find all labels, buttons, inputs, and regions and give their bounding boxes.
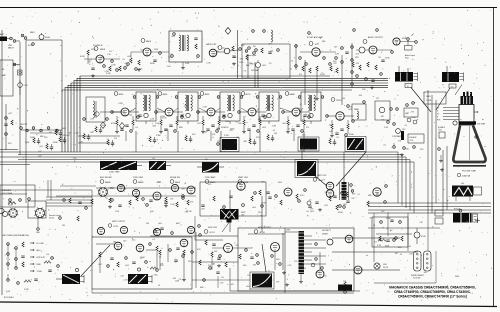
terminal flyback tap bbox=[315, 239, 333, 269]
svg-text:HTR 6.3V: HTR 6.3V bbox=[37, 257, 46, 259]
CRT funnel and screen bbox=[453, 126, 486, 166]
svg-text:1B3GT: 1B3GT bbox=[322, 234, 329, 236]
wire left vertical x20 bbox=[19, 42, 21, 155]
svg-text:560: 560 bbox=[381, 211, 384, 213]
svg-text:YOKE: YOKE bbox=[426, 100, 432, 102]
svg-text:VERT OSC: VERT OSC bbox=[317, 175, 327, 177]
svg-text:560: 560 bbox=[113, 241, 116, 243]
wire trunk x230b bbox=[301, 140, 303, 159]
svg-text:MAGNAVOX CHASSIS CR6A/CT648F00: MAGNAVOX CHASSIS CR6A/CT648F00, CR6A/CT6… bbox=[389, 286, 475, 290]
tube V14 AGC keyer spoked bbox=[98, 187, 109, 198]
capacitor C90 filter can bbox=[414, 228, 426, 244]
svg-text:PILOT: PILOT bbox=[383, 267, 389, 269]
node cluster M1 bbox=[59, 135, 71, 144]
svg-text:AGC: AGC bbox=[37, 249, 42, 252]
sync right extra parts bbox=[252, 189, 348, 209]
svg-text:VERT OSC: VERT OSC bbox=[238, 177, 249, 179]
svg-text:.001: .001 bbox=[295, 116, 299, 118]
svg-text:120K: 120K bbox=[111, 64, 116, 66]
video IF stage 3 parts bbox=[197, 111, 227, 134]
remote socket wires bbox=[0, 180, 92, 234]
tube V7 video IF 1 4BZ6 bbox=[114, 92, 129, 116]
audio output parts bbox=[351, 43, 416, 91]
tube V21 vert output bbox=[373, 185, 388, 197]
svg-text:470K: 470K bbox=[156, 182, 161, 184]
svg-text:560: 560 bbox=[402, 129, 405, 131]
coil L11 trap black bbox=[149, 158, 171, 170]
tube V2 sound IF amp 6AU6 bbox=[141, 39, 152, 57]
svg-text:FOCUS: FOCUS bbox=[454, 209, 461, 211]
svg-text:.01: .01 bbox=[357, 194, 360, 196]
mixer terminal row bbox=[20, 124, 62, 139]
svg-text:330K: 330K bbox=[455, 276, 460, 278]
svg-text:.005: .005 bbox=[230, 284, 234, 286]
svg-text:.02: .02 bbox=[408, 246, 411, 248]
transformer Z4 video IF can 4 bbox=[256, 92, 282, 124]
coil L1 input IF can bbox=[83, 97, 109, 122]
svg-text:G2: G2 bbox=[437, 107, 439, 109]
tube V22b vert out right bbox=[136, 243, 151, 252]
svg-text:470K: 470K bbox=[421, 236, 426, 238]
tube V15b clipper bbox=[132, 189, 139, 196]
svg-text:.001: .001 bbox=[376, 193, 380, 195]
svg-text:.01: .01 bbox=[373, 225, 376, 227]
VHF tuner RF unit box bbox=[0, 60, 13, 96]
svg-text:6AU8: 6AU8 bbox=[175, 181, 181, 184]
svg-text:.047: .047 bbox=[38, 155, 42, 157]
wire flyback out 1 bbox=[332, 237, 400, 239]
sound IF stage parts bbox=[80, 50, 126, 78]
video IF stage 4 parts bbox=[238, 111, 267, 134]
AGC det parts cluster bbox=[299, 52, 339, 101]
svg-text:1.5K: 1.5K bbox=[115, 211, 120, 213]
svg-text:1M: 1M bbox=[146, 223, 149, 225]
svg-text:1M: 1M bbox=[234, 142, 237, 144]
svg-text:.001: .001 bbox=[236, 137, 240, 139]
tube socket C spoked bbox=[34, 207, 46, 219]
node cluster M9 bbox=[33, 136, 45, 145]
transformer Z1 video IF can 1 bbox=[133, 92, 159, 124]
svg-text:.02: .02 bbox=[222, 47, 225, 49]
wire left vertical x26 bbox=[25, 40, 27, 203]
terminal pair right bbox=[384, 121, 395, 129]
wire yoke box to flyback bbox=[192, 262, 250, 280]
svg-text:2.2M: 2.2M bbox=[74, 133, 79, 135]
svg-text:COIL: COIL bbox=[410, 140, 414, 142]
tube V9 video IF 3 4BZ6 bbox=[200, 92, 215, 116]
svg-text:HV RECT: HV RECT bbox=[322, 230, 332, 232]
transformer T5 47.25 trap black bbox=[298, 135, 319, 152]
svg-text:SOUND IF: SOUND IF bbox=[93, 45, 103, 47]
svg-text:6DQ6: 6DQ6 bbox=[260, 232, 266, 234]
svg-text:B PLUS ADJ: B PLUS ADJ bbox=[4, 296, 14, 299]
equalizing coil label bbox=[438, 126, 445, 172]
svg-text:SYNC SEP: SYNC SEP bbox=[133, 177, 144, 179]
capacitor C601 bbox=[18, 70, 23, 75]
node cluster M12 bbox=[107, 138, 117, 147]
svg-text:120K: 120K bbox=[320, 74, 325, 76]
svg-text:1M: 1M bbox=[88, 61, 91, 63]
svg-text:4.5MC TRAP: 4.5MC TRAP bbox=[109, 171, 120, 174]
svg-text:.001: .001 bbox=[359, 95, 363, 97]
volume control bbox=[251, 60, 261, 72]
svg-text:120K: 120K bbox=[175, 280, 180, 282]
svg-text:HOR OSC: HOR OSC bbox=[208, 227, 218, 229]
svg-text:560: 560 bbox=[154, 275, 157, 277]
tube V24 horiz output bbox=[271, 243, 280, 252]
video IF stage 2 parts bbox=[155, 111, 184, 134]
svg-text:.005: .005 bbox=[204, 131, 208, 133]
brightness box bbox=[404, 102, 418, 124]
tube VD5 horiz afc bbox=[152, 239, 193, 282]
tube VD2 bbox=[120, 226, 127, 233]
transformer T8 vert output black bbox=[220, 204, 245, 232]
between yoke parts bbox=[154, 223, 174, 234]
tube V27 damper b bbox=[354, 266, 362, 274]
power filter parts bbox=[376, 234, 412, 249]
svg-text:220: 220 bbox=[73, 158, 76, 160]
wire osc feed bbox=[195, 216, 223, 240]
ratio det load parts bbox=[217, 30, 255, 78]
svg-text:ION TRAP: ION TRAP bbox=[477, 123, 486, 126]
svg-text:.047: .047 bbox=[108, 188, 112, 190]
svg-text:330K: 330K bbox=[221, 209, 226, 211]
svg-text:470K: 470K bbox=[111, 123, 116, 125]
svg-text:1M: 1M bbox=[214, 251, 217, 253]
svg-text:6DG6: 6DG6 bbox=[402, 38, 407, 40]
tube V1 sound IF 4BU8 bbox=[93, 45, 106, 63]
svg-text:560: 560 bbox=[342, 98, 345, 100]
tube socket B spoked bbox=[8, 202, 19, 218]
wire left vertical x62 bbox=[61, 40, 63, 92]
phono 6T8 extra terms bbox=[295, 32, 349, 70]
svg-text:1M: 1M bbox=[274, 133, 277, 135]
tube V18 vert osc bbox=[237, 182, 245, 190]
border top rule bbox=[0, 7, 497, 9]
resistor R90 boost bbox=[344, 282, 347, 293]
svg-text:330K: 330K bbox=[385, 246, 390, 248]
svg-text:120K: 120K bbox=[239, 62, 244, 64]
svg-text:560: 560 bbox=[111, 188, 114, 190]
svg-text:1M: 1M bbox=[62, 225, 65, 227]
wire diagonal T7 to vert osc bbox=[303, 166, 327, 186]
svg-text:1.5K: 1.5K bbox=[384, 127, 389, 129]
diamond test point TP3 bbox=[100, 122, 105, 128]
wire diagonal T6 to vert osc bbox=[336, 152, 366, 186]
svg-text:T3: T3 bbox=[451, 86, 453, 88]
tube VD1 bbox=[97, 227, 104, 234]
antenna input terminals bbox=[0, 32, 50, 42]
flyback cage box bbox=[238, 228, 354, 291]
svg-text:.02: .02 bbox=[140, 258, 143, 260]
svg-text:330K: 330K bbox=[349, 134, 354, 136]
antenna extra text bbox=[8, 43, 34, 50]
tube V23 horiz osc bbox=[224, 244, 233, 253]
tube V20 vert osc twin 6CG7 bbox=[313, 175, 334, 197]
node cluster M10 bbox=[46, 142, 59, 151]
label VERT OSC bbox=[238, 177, 249, 184]
sync row parts clutter bbox=[91, 196, 387, 214]
row4 under-tube parts bbox=[96, 188, 196, 209]
svg-text:2.2M: 2.2M bbox=[335, 54, 340, 56]
svg-text:2.2M: 2.2M bbox=[306, 148, 311, 150]
svg-text:.01: .01 bbox=[289, 68, 292, 70]
svg-text:B+ 140V: B+ 140V bbox=[37, 243, 45, 245]
focus coil black W bbox=[452, 183, 482, 201]
wire T3 right lead bbox=[455, 85, 462, 96]
coil L10 trap black bbox=[100, 161, 142, 174]
svg-text:5%: 5% bbox=[235, 121, 238, 123]
tube V8 video IF 2 4BZ6 bbox=[158, 92, 173, 116]
svg-text:5%: 5% bbox=[168, 57, 171, 59]
horiz osc parts bbox=[208, 248, 259, 270]
svg-text:5%: 5% bbox=[269, 63, 272, 65]
wire IF stage drops to bus bbox=[126, 131, 304, 152]
wire power verticals bbox=[374, 213, 428, 262]
transformer T2 audio output black bbox=[395, 66, 418, 88]
yoke box parts bbox=[96, 244, 184, 269]
node cluster M4 bbox=[149, 135, 161, 144]
svg-text:PICTURE TUBE: PICTURE TUBE bbox=[462, 171, 477, 173]
svg-text:5%: 5% bbox=[105, 198, 108, 200]
tube V16 noise inverter bbox=[153, 192, 161, 200]
svg-text:5%: 5% bbox=[109, 51, 112, 53]
svg-text:470K: 470K bbox=[162, 118, 167, 120]
tube V11 video IF 5 6AN8 bbox=[285, 92, 300, 116]
tube V6 audio output bbox=[353, 29, 418, 45]
wire diagonal T3 to CRT bus bbox=[436, 88, 450, 110]
coil L14 horiz yoke black bbox=[128, 268, 152, 284]
svg-text:DEFL: DEFL bbox=[426, 96, 431, 98]
contrast control bbox=[392, 129, 401, 138]
svg-text:.047: .047 bbox=[257, 119, 261, 121]
wire trunk x92 bbox=[91, 190, 93, 237]
tube V3 ratio detector bbox=[206, 43, 222, 57]
svg-text:.047: .047 bbox=[355, 53, 359, 55]
AC interlock small parts bbox=[372, 217, 408, 247]
tube V25 HV rectifier bbox=[345, 235, 353, 243]
svg-text:5%: 5% bbox=[244, 70, 247, 72]
svg-text:220: 220 bbox=[333, 63, 336, 65]
transformer T9 flyback HV hatched bbox=[285, 228, 326, 293]
speaker plug SP1 bbox=[405, 34, 414, 51]
svg-text:.005: .005 bbox=[246, 286, 250, 288]
svg-text:220: 220 bbox=[49, 132, 52, 134]
label PICTURE TUBE bbox=[457, 171, 476, 178]
svg-text:6CZ5: 6CZ5 bbox=[114, 226, 119, 228]
transformer Z2 video IF can 2 bbox=[175, 92, 201, 124]
svg-text:.01: .01 bbox=[299, 104, 302, 106]
svg-text:.01: .01 bbox=[404, 125, 407, 127]
wire power horizontals bbox=[368, 228, 440, 283]
transformer T1 quadrature det bbox=[169, 31, 202, 70]
svg-text:5%: 5% bbox=[299, 74, 302, 76]
svg-text:T2: T2 bbox=[407, 86, 409, 88]
tube VD3 bbox=[153, 228, 160, 235]
svg-text:.01: .01 bbox=[158, 285, 161, 287]
transformer T6 41.25 trap black bbox=[345, 134, 366, 152]
CRT socket cap black bbox=[461, 96, 474, 105]
wire right power bus band 3 bbox=[368, 203, 491, 213]
svg-text:1M: 1M bbox=[126, 65, 129, 67]
wire IF row horizontal bbox=[100, 108, 303, 112]
svg-text:.047: .047 bbox=[132, 240, 136, 242]
svg-text:220: 220 bbox=[88, 59, 91, 61]
svg-text:560: 560 bbox=[233, 57, 236, 59]
svg-text:2.2M: 2.2M bbox=[206, 63, 211, 65]
svg-text:5%: 5% bbox=[205, 159, 208, 161]
transformer T4 sound take-off black bbox=[217, 135, 239, 152]
wire diagonal T2 to CRT bus bbox=[411, 88, 431, 113]
label HOR OSC bbox=[204, 227, 218, 234]
focus magnet pair black bbox=[453, 209, 480, 224]
left edge column parts bbox=[4, 104, 13, 150]
svg-text:330K: 330K bbox=[164, 130, 169, 132]
transformer T3 width coil black bbox=[442, 66, 464, 88]
svg-text:2.2M: 2.2M bbox=[25, 142, 30, 144]
svg-text:120K: 120K bbox=[135, 196, 140, 198]
border right rule bbox=[493, 8, 495, 307]
svg-text:4BU8: 4BU8 bbox=[100, 49, 106, 51]
svg-text:560: 560 bbox=[123, 240, 126, 242]
svg-text:COIL: COIL bbox=[438, 130, 442, 132]
label interconnect plug bbox=[411, 275, 424, 280]
svg-text:TEST PT: TEST PT bbox=[20, 124, 28, 126]
coil L16 small black bbox=[338, 285, 352, 291]
diamond test point TP2 bbox=[119, 123, 124, 129]
transformer Z3 video IF can 3 bbox=[217, 92, 243, 124]
peaking coil box bbox=[347, 101, 366, 120]
svg-text:M601: M601 bbox=[30, 32, 35, 34]
svg-text:6CG7: 6CG7 bbox=[210, 232, 216, 234]
connector J2 interconnect bbox=[424, 251, 432, 271]
svg-text:.02: .02 bbox=[399, 254, 402, 256]
svg-text:.047: .047 bbox=[212, 56, 216, 58]
svg-text:330K: 330K bbox=[91, 49, 96, 51]
mid bottom parts cluster bbox=[196, 232, 227, 289]
label NOISE INV bbox=[170, 177, 181, 184]
svg-text:1M: 1M bbox=[214, 53, 217, 55]
wire horiz section verticals bbox=[230, 190, 320, 270]
svg-text:470K: 470K bbox=[278, 182, 283, 184]
CRT aux parts bbox=[435, 148, 443, 224]
svg-text:560: 560 bbox=[129, 115, 132, 117]
svg-text:4.7K: 4.7K bbox=[377, 245, 382, 247]
svg-text:.02: .02 bbox=[287, 129, 290, 131]
border bottom rule bbox=[0, 302, 497, 307]
svg-text:.001: .001 bbox=[369, 218, 373, 220]
svg-text:120K: 120K bbox=[225, 121, 230, 123]
svg-text:220: 220 bbox=[324, 275, 327, 277]
wire sync row rails bbox=[30, 186, 196, 196]
svg-text:PLUG: PLUG bbox=[8, 205, 13, 207]
svg-text:220: 220 bbox=[409, 253, 412, 255]
deflection yoke label box bbox=[424, 92, 446, 104]
wire trunk x344 bbox=[343, 152, 345, 200]
svg-text:6AU6: 6AU6 bbox=[146, 40, 152, 43]
svg-text:CR6A CT649F00, CR6A/CT669F00,: CR6A CT649F00, CR6A/CT669F00, CR6A CTA50… bbox=[394, 290, 471, 294]
svg-text:YOKE: YOKE bbox=[37, 271, 43, 273]
svg-text:330K: 330K bbox=[383, 264, 388, 266]
label SYNC AMP bbox=[205, 176, 216, 184]
svg-text:.047: .047 bbox=[394, 253, 398, 255]
svg-text:.01: .01 bbox=[309, 200, 312, 202]
diamond test point TP1 bbox=[225, 28, 231, 35]
svg-text:AUDIO OUTPUT: AUDIO OUTPUT bbox=[368, 36, 384, 39]
svg-text:IF DET AGC AMP: IF DET AGC AMP bbox=[307, 36, 324, 39]
svg-text:.047: .047 bbox=[184, 105, 188, 107]
svg-text:6CG7: 6CG7 bbox=[319, 180, 324, 182]
wire mid horizontals bbox=[30, 133, 120, 143]
svg-text:2.2M: 2.2M bbox=[170, 204, 175, 206]
label HV RECT bbox=[322, 230, 332, 236]
vert output transformer coil bbox=[340, 182, 354, 200]
svg-text:2.2M: 2.2M bbox=[106, 73, 111, 75]
tube V17 sync amp bbox=[187, 186, 195, 194]
wire yoke leads bbox=[100, 244, 168, 273]
bottom left foot parts bbox=[4, 274, 38, 299]
deflection yoke box bbox=[92, 237, 192, 289]
svg-text:5%: 5% bbox=[374, 242, 377, 244]
svg-text:560: 560 bbox=[406, 148, 409, 150]
svg-text:300Ω: 300Ω bbox=[45, 37, 50, 39]
svg-text:.01: .01 bbox=[291, 60, 294, 62]
svg-text:6AW8: 6AW8 bbox=[105, 181, 111, 184]
svg-text:AGC KEYER: AGC KEYER bbox=[100, 176, 112, 179]
svg-text:.02: .02 bbox=[383, 144, 386, 146]
svg-text:VERT OUTPUT: VERT OUTPUT bbox=[112, 221, 126, 223]
svg-text:Socket: Socket bbox=[49, 217, 55, 220]
vert osc lower parts bbox=[307, 201, 345, 213]
wire band2 right drop verticals bbox=[398, 152, 414, 213]
label AGC KEYER bbox=[100, 176, 112, 184]
node cluster M6 bbox=[249, 137, 261, 146]
svg-text:21ALP4A: 21ALP4A bbox=[462, 175, 471, 178]
wire ratio det drop pair bbox=[255, 62, 258, 88]
coil L13 vert yoke black bbox=[56, 268, 84, 284]
svg-text:.005: .005 bbox=[269, 104, 273, 106]
wire bus band 1 and risers bbox=[62, 76, 388, 152]
transformer T7 horiz disc black bbox=[295, 160, 318, 178]
tube V19 phase det bbox=[284, 188, 292, 196]
tube VD4 bbox=[187, 225, 200, 234]
svg-text:5%: 5% bbox=[221, 277, 224, 279]
svg-text:G1: G1 bbox=[437, 113, 439, 115]
tube V5 IF DET AGC AMP 6T8 bbox=[307, 36, 324, 56]
svg-text:Audio Output: Audio Output bbox=[405, 54, 415, 57]
svg-text:220: 220 bbox=[258, 284, 261, 286]
svg-text:5%: 5% bbox=[114, 138, 117, 140]
video out box bbox=[375, 98, 398, 120]
svg-text:120K: 120K bbox=[386, 218, 391, 220]
svg-text:470K: 470K bbox=[316, 272, 321, 274]
svg-text:.001: .001 bbox=[270, 50, 274, 52]
tube V10 video IF 4 4DT6 bbox=[241, 92, 256, 116]
svg-text:CONTRAST: CONTRAST bbox=[392, 135, 401, 138]
svg-text:5%: 5% bbox=[247, 275, 250, 277]
svg-text:120K: 120K bbox=[185, 63, 190, 65]
CRT ion trap magnet bbox=[453, 121, 486, 126]
phono input box bbox=[242, 30, 290, 78]
svg-text:140: 140 bbox=[461, 183, 464, 185]
svg-text:5%: 5% bbox=[297, 108, 300, 110]
svg-text:470K: 470K bbox=[261, 202, 266, 204]
label HOR OUTPUT bbox=[254, 227, 272, 234]
svg-text:12BY7: 12BY7 bbox=[336, 100, 343, 102]
border left rule bbox=[1, 30, 3, 295]
tube V15c gate bbox=[171, 184, 178, 191]
tube V22a vert out left bbox=[114, 242, 122, 250]
